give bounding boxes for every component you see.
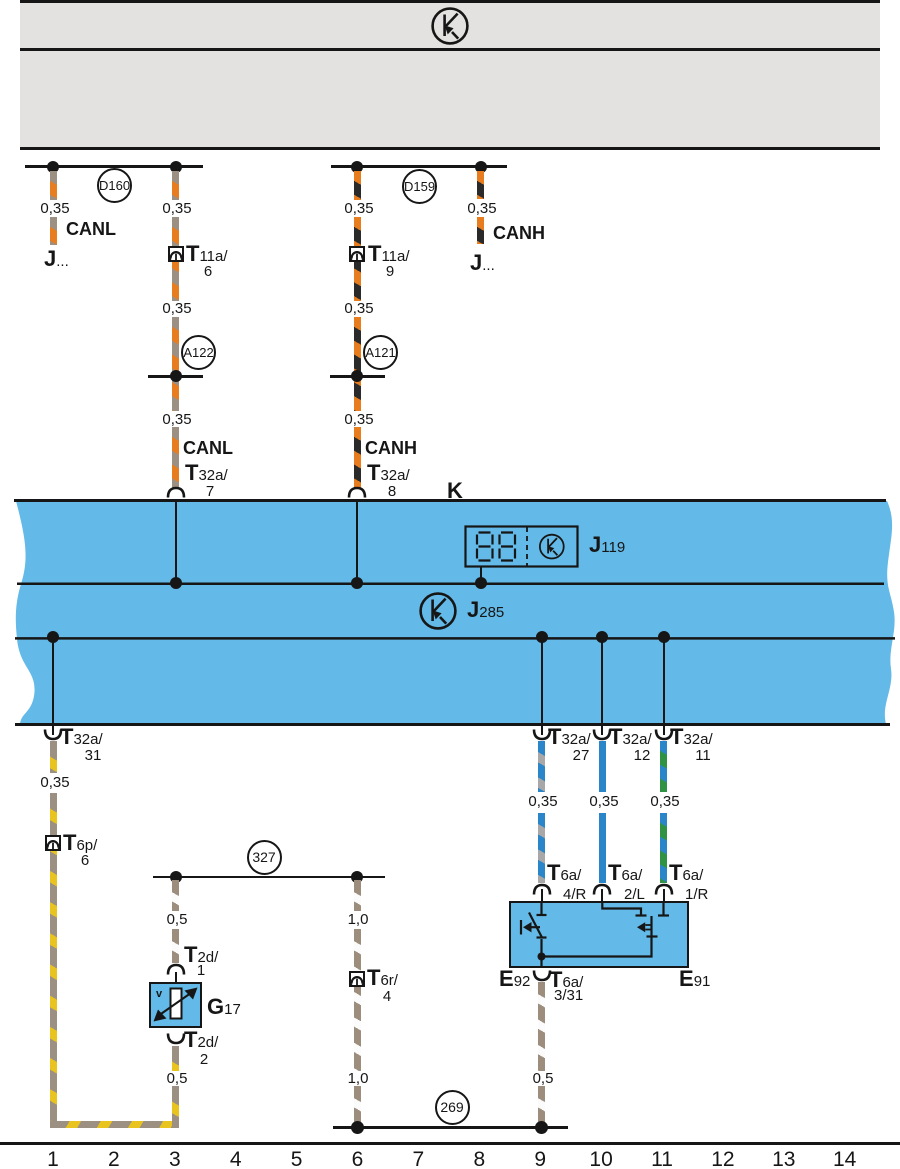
svg-text:v: v <box>156 988 163 1000</box>
